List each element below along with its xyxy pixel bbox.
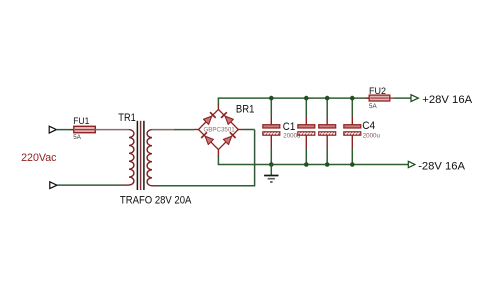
junction top rail at C3	[325, 96, 330, 101]
output terminal -28V	[408, 161, 415, 167]
bridge rectifier BR1 body	[199, 109, 239, 149]
svg-text:FU1: FU1	[73, 116, 89, 127]
wire BR1 + output to top rail	[217, 98, 219, 109]
net +V top rail	[218, 97, 370, 99]
junction bottom rail at C3	[325, 162, 330, 167]
svg-text:TRAFO 28V 20A: TRAFO 28V 20A	[120, 195, 192, 207]
wire TR1 secondary top to BR1 AC-left	[152, 129, 199, 131]
wire FU1 to TR1 primary	[95, 129, 129, 131]
svg-text:C1: C1	[283, 121, 296, 133]
junction bottom rail at C1/ground	[269, 162, 274, 167]
ground lead	[270, 165, 272, 176]
wire BR1 - output down	[217, 150, 219, 165]
svg-text:+28V 16A: +28V 16A	[422, 94, 472, 106]
junction top rail at C2	[304, 96, 309, 101]
ground symbol	[264, 176, 278, 183]
svg-text:5A: 5A	[369, 103, 377, 110]
input terminal (line)	[49, 126, 56, 133]
junction bottom rail at C4	[350, 162, 355, 167]
capacitor C1 plates	[263, 125, 280, 136]
transformer TR1 primary winding	[129, 130, 134, 185]
input terminal (neutral)	[50, 182, 57, 189]
capacitor C4 plates	[344, 125, 361, 136]
net -V bottom rail	[218, 164, 409, 166]
capacitor C2 leads	[305, 98, 307, 164]
wire terminal to FU1	[56, 129, 74, 131]
bridge diode D4	[223, 132, 235, 144]
output terminal +28V	[411, 95, 418, 102]
fuse FU2	[366, 95, 395, 101]
wire FU2 to +28V terminal	[394, 97, 411, 99]
wire terminal to TR1 primary bottom	[57, 184, 123, 186]
junction bottom rail at C2	[304, 162, 309, 167]
bridge diode D2	[221, 112, 233, 124]
capacitor C3 leads	[326, 98, 328, 164]
capacitor C4 leads	[351, 98, 353, 164]
svg-text:C4: C4	[362, 120, 375, 132]
bridge diode D3	[201, 132, 213, 144]
fuse FU1	[71, 126, 99, 132]
svg-text:2000u: 2000u	[363, 133, 381, 140]
wire TR1 secondary bottom to BR1 AC-right	[152, 130, 255, 187]
transformer TR1 secondary winding	[147, 130, 152, 186]
svg-text:220Vac: 220Vac	[21, 152, 57, 164]
svg-text:BR1: BR1	[236, 104, 255, 116]
bridge diode D1	[204, 112, 216, 124]
capacitor C3 plates	[319, 125, 336, 136]
transformer TR1 core	[137, 121, 144, 190]
junction top rail at C1	[269, 96, 274, 101]
svg-text:-28V 16A: -28V 16A	[418, 161, 465, 173]
svg-text:FU2: FU2	[369, 86, 386, 97]
svg-text:5A: 5A	[73, 134, 81, 141]
svg-text:GBPC3501: GBPC3501	[204, 126, 236, 133]
capacitor C1 leads	[270, 98, 272, 164]
svg-text:TR1: TR1	[118, 112, 136, 124]
pin stub primary bottom	[123, 184, 129, 186]
capacitor C2 plates	[298, 125, 315, 136]
junction top rail at C4	[350, 96, 355, 101]
